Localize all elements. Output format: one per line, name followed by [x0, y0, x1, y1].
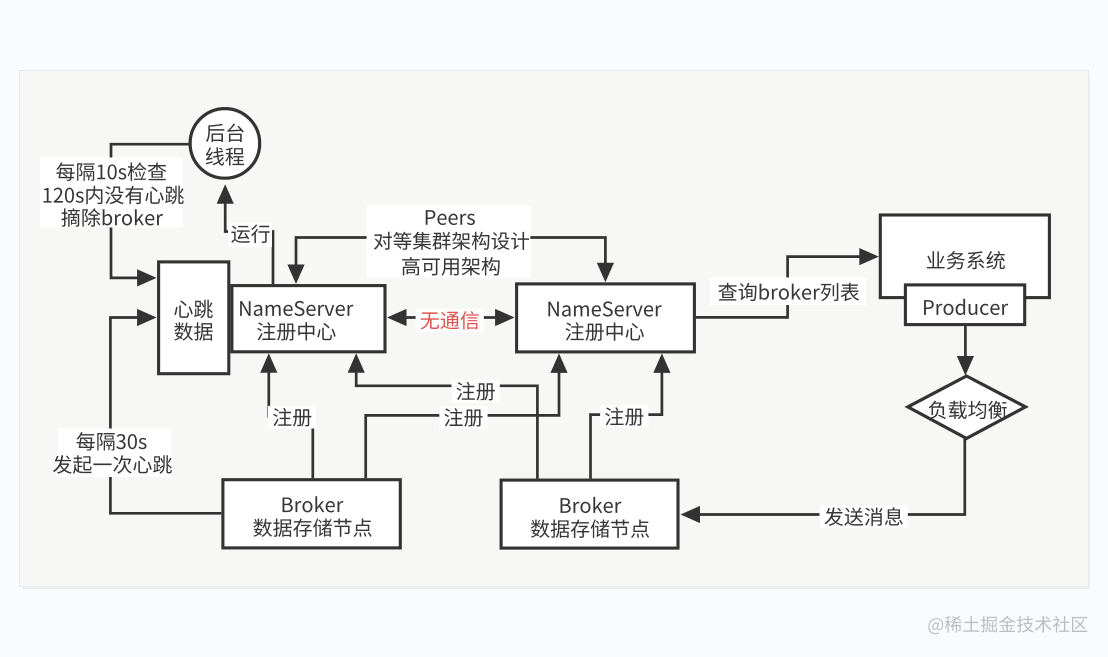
box heartbeat-data 心跳数据 — [159, 262, 229, 374]
label 注册中心 (NameServer2 line2) — [565, 322, 643, 341]
arrowhead into NameServer2 left — [495, 309, 514, 326]
annotation background 查询broker列表 — [710, 278, 866, 306]
label 120s内没有心跳 — [43, 186, 183, 204]
wire register Broker1 to NameServer1 — [269, 370, 313, 478]
wire peers NameServer1<->NameServer2 top link — [296, 238, 605, 268]
wire query-broker-list NameServer2 to business-system — [696, 257, 862, 318]
content panel shadow — [22, 73, 1090, 589]
wire Producer to load-balance — [964, 326, 967, 358]
wire register Broker2 to NameServer2 — [591, 370, 662, 478]
watermark @稀土掘金技术社区 — [928, 616, 1087, 634]
label NameServer (NameServer2 line1) — [548, 301, 661, 316]
label Peers — [426, 210, 475, 225]
wire send-message load-balance to Broker2 — [697, 437, 965, 514]
label 心跳 (heartbeat line1) — [174, 300, 213, 318]
diamond load-balance 负载均衡 — [908, 376, 1026, 438]
label 发起一次心跳 — [53, 455, 172, 474]
box NameServer2 注册中心 — [517, 284, 695, 352]
label 发送消息 — [820, 505, 908, 528]
box Broker1 数据存储节点 — [223, 480, 400, 548]
label Producer — [924, 299, 1008, 315]
label 高可用架构 — [402, 257, 500, 276]
label NameServer (NameServer1 line1) — [240, 301, 353, 316]
label 线程 (circle line2) — [206, 147, 244, 165]
arrowhead into NameServer1 right — [387, 309, 407, 326]
label 注册 (Broker2 to NS2) — [600, 405, 648, 428]
arrowhead into NameServer1 bottom-left — [260, 353, 277, 373]
label 注册 (Broker2 to NS1) — [452, 380, 500, 403]
box Producer — [905, 285, 1024, 325]
wire register Broker1 to NameServer2 — [366, 370, 559, 478]
label 数据存储节点 (Broker2 line2) — [531, 519, 649, 538]
label 无通信 (red) — [416, 309, 484, 332]
label 业务系统 — [927, 251, 1005, 269]
label 负载均衡 — [929, 401, 1007, 419]
arrowhead into NameServer2 bottom-right — [653, 353, 670, 373]
arrowhead into business-system left — [859, 248, 879, 265]
label 对等集群架构设计 — [374, 232, 529, 250]
label 每隔30s — [76, 432, 146, 451]
label 数据存储节点 (Broker1 line2) — [253, 518, 371, 537]
label 后台 (circle line1) — [206, 124, 244, 143]
box business-system 业务系统 — [880, 215, 1049, 298]
label 摘除broker — [61, 208, 163, 227]
label 注册中心 (NameServer1 line2) — [257, 322, 335, 341]
arrowhead into NameServer2 bottom-left — [550, 353, 567, 373]
annotation background Peers — [367, 206, 531, 278]
arrowhead into heartbeat-data top-left — [137, 269, 157, 286]
label 数据 (heartbeat line2) — [174, 322, 212, 340]
arrowhead into NameServer2 top — [597, 263, 614, 283]
arrowhead into Broker2 right — [681, 506, 701, 523]
label Broker (Broker1 line1) — [283, 496, 344, 512]
label 运行 — [228, 223, 272, 248]
wire register Broker2 to NameServer1 — [356, 370, 537, 479]
box NameServer1 注册中心 — [232, 286, 385, 352]
arrowhead into NameServer1 top — [287, 265, 304, 285]
label 查询broker列表 — [718, 283, 859, 302]
arrowhead into load-balance top — [957, 356, 974, 376]
label 每隔10s检查 — [56, 162, 166, 181]
wire 10s-check circle to heartbeat-data — [111, 144, 190, 278]
arrowhead into heartbeat-data left — [137, 309, 157, 326]
wire run NameServer1 to circle — [225, 202, 273, 284]
arrowhead into NameServer1 bottom-right — [348, 353, 365, 373]
annotation background 每隔10s检查 — [40, 158, 183, 228]
arrowhead into circle bottom — [217, 184, 234, 204]
box Broker2 数据存储节点 — [501, 480, 678, 548]
annotation background 每隔30s — [58, 429, 171, 478]
circle background-thread 后台线程 — [190, 109, 260, 179]
content panel — [20, 71, 1089, 587]
wire 30s-heartbeat Broker1 to heartbeat-data — [110, 318, 221, 514]
label 注册 (Broker1 to NS1) — [268, 406, 316, 429]
label Broker (Broker2 line1) — [561, 497, 622, 513]
wire no-communication double arrow — [404, 316, 499, 319]
label 注册 (Broker1 to NS2) — [439, 406, 487, 429]
